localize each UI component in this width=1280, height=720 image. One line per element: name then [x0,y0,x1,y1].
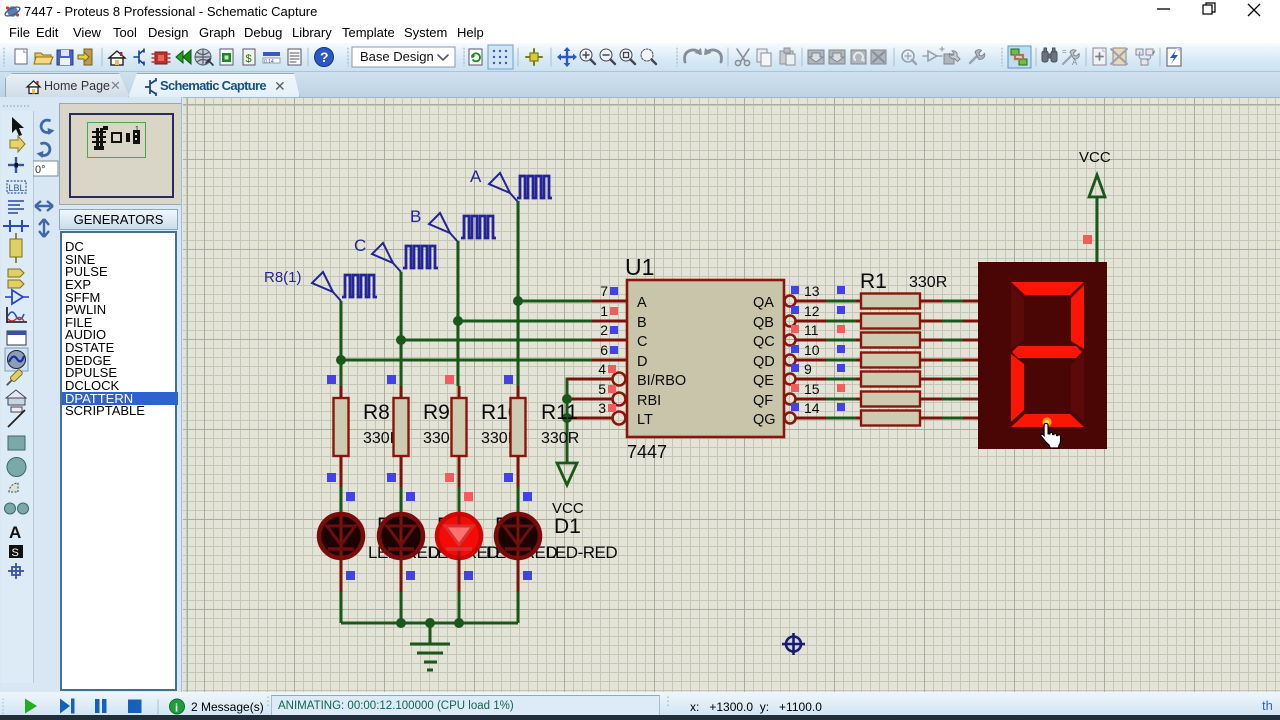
svg-text:QF: QF [753,393,773,409]
pin U1.D [592,359,627,362]
svg-text:D1: D1 [554,515,581,538]
7seg segment e (lit) [1011,354,1024,422]
QC net: circle, wires, resistor R1.3, indicators, pin number 11 [785,322,980,348]
svg-text:BI/RBO: BI/RBO [637,373,686,389]
pin U1.A [592,300,627,303]
wire row D to U1 [341,359,594,362]
U1 inversion circle BI/RBO [613,373,626,386]
pin 2 state (blue) [610,326,618,334]
VCC wire state (red) [1083,235,1092,244]
toolbar [0,43,1280,72]
7seg segment g (lit) [1012,346,1082,358]
resistor R11 body [511,386,526,488]
pin 1 state (red) [610,307,618,315]
svg-text:11: 11 [804,322,819,338]
svg-text:C: C [637,334,647,350]
pin 5 state (red) [608,385,616,393]
svg-text:330R: 330R [909,274,947,291]
mouse cursor (hand) [1041,423,1061,448]
sidebar [0,97,183,692]
svg-text:LBL: LBL [9,183,25,193]
pin 6 state (blue) [610,346,618,354]
svg-text:B: B [637,315,647,331]
junction LT [562,413,572,423]
svg-text:D: D [637,354,647,370]
svg-text:0.14: 0.14 [264,59,274,65]
svg-text:RBI: RBI [637,393,661,409]
resistor R9 body [394,386,409,488]
wire gen R8(1) vertical [340,301,343,386]
cursor glow dot [1042,417,1051,426]
svg-text:R11: R11 [541,401,578,424]
U1 inversion circle LT [613,412,626,425]
origin marker [782,633,805,655]
pin U1.LT [567,417,613,420]
svg-text:3: 3 [598,400,606,416]
svg-text:15: 15 [804,381,820,397]
svg-text:QC: QC [753,334,775,350]
svg-text:B: B [410,207,421,226]
7seg segment d (lit) [1011,414,1084,427]
7-segment display body [978,262,1107,449]
menu bar [0,22,1280,43]
svg-text:QB: QB [753,315,774,331]
LED cathode states [346,571,532,580]
svg-text:LT: LT [637,412,653,428]
wire row B to U1 [458,320,594,323]
wire gen C vertical [400,272,403,386]
wire gen A vertical [517,201,520,386]
svg-text:0°: 0° [35,164,46,176]
status bar [0,692,1280,715]
wire gen B vertical [457,241,460,386]
wire LED D3 down [400,558,403,594]
generator B waveform [461,216,496,238]
svg-text:S: S [12,547,19,559]
ground [410,623,450,670]
LED D3 (off) [379,514,423,558]
svg-text:A: A [470,167,482,186]
svg-text:QA: QA [753,295,774,311]
pin U1.RBI [567,398,613,401]
generator A symbol [489,173,518,202]
svg-text:A: A [1072,58,1078,67]
svg-text:R9: R9 [423,401,450,424]
wire row A to U1 [518,300,594,303]
U1 inversion circle RBI [613,393,626,406]
power terminal VCC (down) [557,463,577,485]
QE net: circle, wires, resistor R1.5, indicators, pin number 9 [785,361,980,387]
LED anode states [346,492,532,501]
svg-text:QD: QD [753,354,775,370]
wire VCC branch vertical [567,379,572,463]
op-amp U1 body (7447) [627,280,784,437]
wire R10 to LED D2 [458,487,461,513]
svg-text:A: A [637,295,647,311]
junction B [453,316,463,326]
resistor R8 body [334,386,349,488]
LED D4 (off) [319,514,363,558]
7seg segment a (lit) [1011,282,1084,295]
pin U1.C [592,339,627,342]
QD net: circle, wires, resistor R1.4, indicators, pin number 10 [785,342,980,368]
pin U1.B [592,320,627,323]
generator R8(1) symbol [312,272,341,301]
svg-text:330R: 330R [541,430,579,447]
QB net: circle, wires, resistor R1.2, indicators, pin number 12 [785,303,980,329]
QF net: circle, wires, resistor R1.6, indicators, pin number 15 [785,381,980,407]
svg-text:QG: QG [753,412,776,428]
left mode-icon strip [0,111,33,683]
rotate / mirror buttons [33,113,59,243]
net states below resistors [327,473,513,482]
generator C symbol [372,243,401,272]
junction A [513,296,523,306]
junction C [396,335,406,345]
junction bus ground [425,618,435,628]
svg-text:LED-RED: LED-RED [546,543,617,562]
svg-text:12: 12 [804,303,820,319]
pin 3 state (red) [608,404,616,412]
svg-text:1: 1 [600,303,608,319]
7seg segment c (unlit) [1071,354,1084,422]
svg-text:i: i [175,703,178,715]
junction D [336,355,346,365]
svg-text:Base Design: Base Design [360,49,434,64]
svg-text:7: 7 [600,283,608,299]
generator B symbol [429,213,458,242]
junction bus D3 [396,618,406,628]
wire ground bus [341,622,518,625]
7seg segment f (unlit) [1011,285,1024,349]
junction bus D2 [454,618,464,628]
wire LED D4 down [340,558,343,594]
svg-text:13: 13 [804,283,820,299]
svg-text:U1: U1 [625,254,654,280]
LED D2 (lit) [437,514,481,558]
svg-text:C: C [354,236,366,255]
svg-text:R8(1): R8(1) [264,269,302,286]
wire LED D2 down [458,558,461,594]
power terminal VCC (up arrow) [1089,175,1105,262]
junction RBI [562,394,572,404]
wire row C to U1 [401,339,594,342]
wire R8 to LED D4 [340,487,343,513]
svg-text:10: 10 [804,342,820,358]
wire LED D1 down [517,558,520,594]
title bar [0,0,1280,22]
svg-text:QE: QE [753,373,774,389]
svg-text:VCC: VCC [1079,149,1111,166]
svg-text:5: 5 [598,381,606,397]
svg-text:4: 4 [598,361,606,377]
pin 4 state (red) [608,365,616,373]
7seg segment b (lit) [1071,285,1084,349]
generator R8(1) waveform [342,275,377,297]
svg-text:7447: 7447 [627,442,667,462]
tab bar [0,72,1280,97]
wire R11 to LED D1 [517,487,520,513]
svg-text:=: = [1062,47,1067,56]
generator A waveform [517,176,552,198]
preview panel [59,103,182,205]
resistor R10 body [452,386,467,488]
net states above resistors (R8,R9,R10,R11) [327,375,513,384]
svg-text:?: ? [320,49,329,65]
wire R9 to LED D3 [400,487,403,513]
pin 7 state (blue) [610,287,618,295]
svg-text:6: 6 [600,342,608,358]
svg-text:R8: R8 [363,401,390,424]
pin U1.BI/RBO [567,378,613,381]
svg-text:A: A [9,523,21,542]
svg-text:2: 2 [600,322,608,338]
canvas [181,97,182,692]
svg-text:R1: R1 [860,270,887,293]
generator C waveform [403,246,438,268]
QG net: circle, wires, resistor R1.7, indicators, pin number 14 [785,400,980,426]
svg-text:14: 14 [804,400,820,416]
svg-text:9: 9 [804,361,812,377]
svg-text:$: $ [246,53,252,65]
QA net: circle, wires, resistor R1.1, indicators, pin number 13 [785,283,980,309]
LED D1 (off) [496,514,540,558]
svg-text:1: 1 [135,126,139,133]
